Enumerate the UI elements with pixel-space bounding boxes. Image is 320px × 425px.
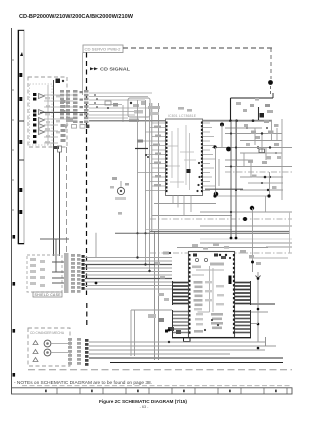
connector CN102 resistor matrix xyxy=(60,90,89,129)
svg-text:Figure 2C SCHEMATIC DIAGRAM (7: Figure 2C SCHEMATIC DIAGRAM (7/15) xyxy=(99,399,187,404)
svg-text:- 63 -: - 63 - xyxy=(140,405,150,409)
resistor array ladder right upper xyxy=(235,281,251,305)
oscillator group X101 xyxy=(128,98,150,122)
board dashed boundary bottom xyxy=(28,369,292,371)
resistor array ladder right lower xyxy=(235,310,251,337)
motor unit box xyxy=(28,328,70,366)
resistor array ladder left lower xyxy=(173,310,189,337)
wire bus rightwards xyxy=(89,93,152,118)
label box CD SERVO PWB xyxy=(83,45,124,95)
frame left border xyxy=(12,28,16,394)
wire drops below IC801 xyxy=(173,196,191,216)
node CD SIGNAL xyxy=(90,67,130,72)
wire long bus y120 xyxy=(89,120,272,122)
junction dots IC area xyxy=(213,123,231,197)
title: CD-BP2000W/210W/200CA/BK2000W/210W xyxy=(19,14,134,20)
svg-text:- NOTEs on SCHEMATIC DIAGRAM a: - NOTEs on SCHEMATIC DIAGRAM are to be f… xyxy=(14,380,152,385)
svg-text:SHIELD CASE: SHIELD CASE xyxy=(35,293,62,297)
wire dark bus pair xyxy=(85,256,172,284)
resistor array ladder left upper xyxy=(173,281,189,305)
connector CN101 edge strip xyxy=(18,30,24,244)
transistor Q102 xyxy=(110,177,129,200)
power line net right top xyxy=(231,80,274,121)
wire right lower rows xyxy=(240,175,283,192)
caption xyxy=(99,399,187,409)
wire motor bus xyxy=(89,337,283,363)
wire vertical links IC area xyxy=(216,125,270,197)
components above IC501 xyxy=(155,243,229,279)
svg-text:CD CHANGER MECHA: CD CHANGER MECHA xyxy=(30,331,65,335)
connector block with diodes (upper left) xyxy=(28,77,73,149)
wire dark feed xyxy=(40,112,86,114)
wire bus right block xyxy=(212,128,292,167)
shield case block lower left xyxy=(27,239,64,297)
connector CN501 with resistor bank xyxy=(64,253,85,293)
resistor ladder left of IC801 xyxy=(135,106,160,158)
frame bottom border xyxy=(12,386,293,394)
vertical wires center bundle xyxy=(96,100,159,360)
wire bus cluster to connector xyxy=(44,95,73,143)
svg-text:IC801 LC78681E: IC801 LC78681E xyxy=(168,114,197,118)
board dashed boundary vertical xyxy=(86,53,88,328)
svg-text:CD SERVO PWB-2: CD SERVO PWB-2 xyxy=(85,48,121,52)
wire vertical bus from connector xyxy=(40,80,69,256)
wire mid horizontal group xyxy=(115,120,292,301)
wire dashed net top xyxy=(123,48,272,96)
components right mid cluster xyxy=(236,98,281,164)
svg-text:CD SIGNAL: CD SIGNAL xyxy=(100,67,130,72)
IC501 block xyxy=(163,252,251,342)
capacitor marks mid left xyxy=(118,212,122,215)
wire bus into IC501 xyxy=(85,258,172,290)
IC801 main servo IC xyxy=(138,114,217,196)
connector columns motor xyxy=(68,338,89,366)
components right of IC501 xyxy=(240,250,275,342)
capacitor cluster near CN102 xyxy=(94,94,123,122)
vertical wires right cluster xyxy=(237,119,283,200)
resistors right cluster xyxy=(229,119,273,163)
wire dash-dot shield y172 xyxy=(225,171,292,173)
components below left of IC501 xyxy=(131,310,181,356)
note text xyxy=(14,380,152,385)
svg-text:CD-BP2000W/210W/200CA/BK2000W/: CD-BP2000W/210W/200CA/BK2000W/210W xyxy=(19,14,134,20)
